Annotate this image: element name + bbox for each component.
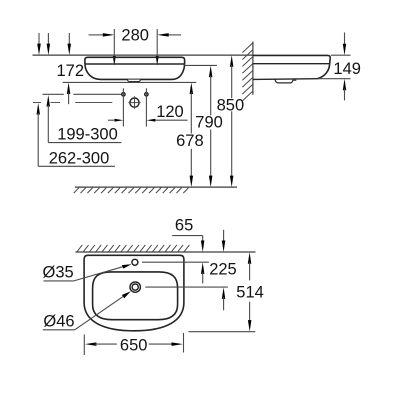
side view wall line [252,42,254,95]
bottom view: basin outer outline [84,255,184,330]
floor hatching [74,188,189,194]
dimension 678 [190,83,194,95]
side view: trap bump [275,79,296,83]
basin front view: drain trap [127,80,141,82]
side view: bowl front curve [318,64,330,78]
side view: basin underside [253,78,318,81]
dimension 225 [223,230,225,242]
mounting arrow left 1 [38,33,40,46]
centerline (dash-dot) [33,102,41,104]
svg-text:Ø35: Ø35 [43,263,74,281]
dimension 650 [83,335,85,356]
tap hole reference line [142,261,209,263]
svg-text:172: 172 [57,62,85,80]
wall reference line (top) [33,54,253,56]
side view wall hatching [242,43,252,101]
svg-text:850: 850 [217,96,245,114]
svg-text:514: 514 [236,284,264,302]
dimension 120 [108,119,114,121]
svg-text:650: 650 [120,336,148,354]
bottom view: basin inner outline [93,272,178,320]
basin front view: rim [85,57,185,64]
bottom view: wall line [76,251,256,253]
faucet hole (front view) [130,98,139,107]
dimension 199-300 [47,95,51,107]
fixing hole right [145,93,148,96]
side view: basin top edge [253,55,330,64]
basin front view: rim bottom edge [85,63,185,65]
svg-text:120: 120 [156,103,184,121]
mounting arrow left 3 / 172 top arrow [68,33,70,46]
faucet-hole height extension line [42,93,63,95]
rim-bottom extension line (790) [185,64,217,66]
side view: rim bottom edge [253,63,330,65]
dimension 280 [113,29,115,56]
svg-text:Ø46: Ø46 [43,313,74,331]
fixing hole extension lines [122,88,124,126]
floor line [75,186,237,188]
dimension 850 [230,55,234,67]
basin front view: bowl [85,64,185,79]
svg-text:225: 225 [209,261,237,279]
drain (bottom view) [130,282,140,292]
svg-text:149: 149 [333,60,361,78]
basin bottom extension line [63,81,197,83]
dimension 149 [331,54,351,56]
svg-text:199-300: 199-300 [57,126,118,144]
mounting arrow left 2 [47,33,49,46]
svg-text:280: 280 [121,26,149,44]
fixing hole left [122,93,125,96]
tap hole (bottom view) [132,259,138,265]
svg-text:678: 678 [176,132,204,150]
dimension 514 [248,252,252,264]
svg-text:65: 65 [175,217,193,235]
svg-text:262-300: 262-300 [49,150,110,168]
dimension 790 [209,66,213,78]
drain reference line [145,286,228,288]
svg-text:790: 790 [195,114,223,132]
dimension 262-300 [37,103,41,115]
bottom view: wall hatching [77,245,189,252]
